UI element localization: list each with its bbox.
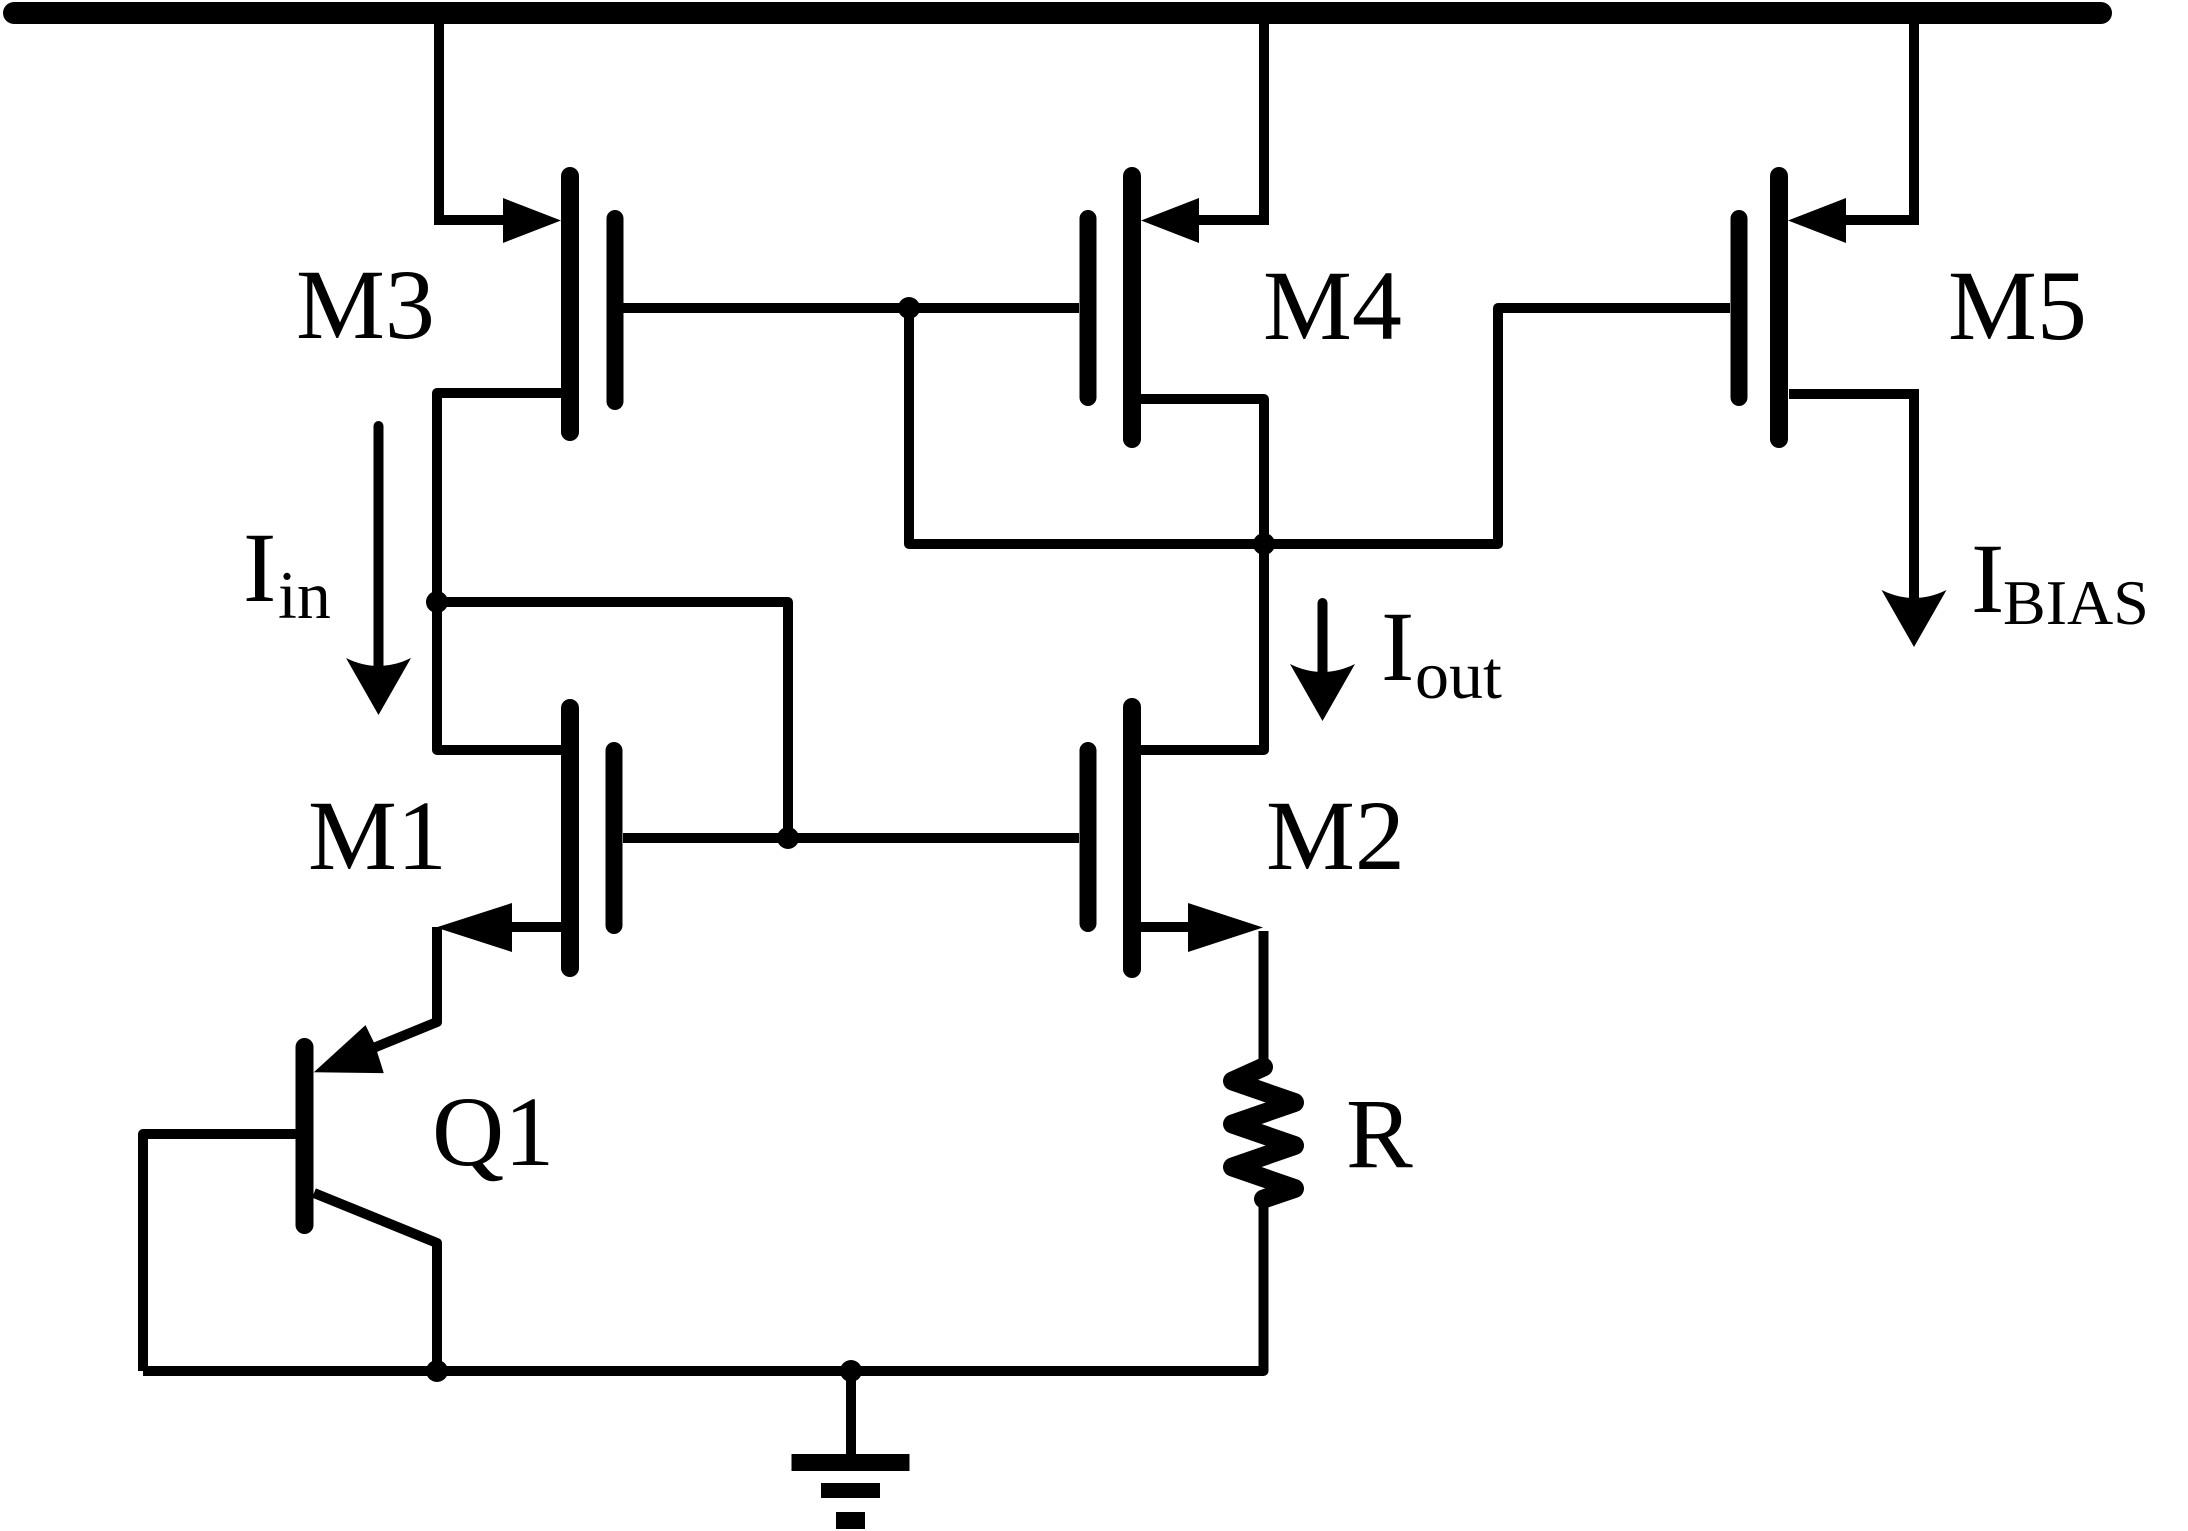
transistor M2 gate bar [1080, 751, 1097, 924]
node D dot on M1-M2 gate line [777, 827, 799, 849]
ground bar 2 [821, 1483, 880, 1498]
M1 source arrow [436, 903, 512, 952]
transistor Q1 base bar [296, 1047, 314, 1225]
wire M5 drain [1789, 394, 1914, 612]
Q1 emitter arrow [314, 1025, 384, 1073]
svg-text:I: I [243, 512, 276, 623]
svg-text:out: out [1415, 637, 1502, 713]
resistor R zigzag [1233, 1067, 1295, 1199]
transistor M3 gate bar [607, 219, 624, 402]
node A dot (Iin node) [426, 591, 448, 613]
M2 source arrow [1188, 903, 1263, 952]
svg-text:I: I [1381, 591, 1414, 702]
transistor M4 channel bar [1123, 176, 1141, 439]
wire M4 drain down to M2 drain [1141, 399, 1264, 750]
svg-text:M2: M2 [1266, 780, 1405, 891]
wire M3 gate to M4 gate [623, 303, 1079, 313]
node E dot (collector-ground wire) [426, 1360, 448, 1382]
wire node B down and over to M5 gate [909, 308, 1730, 544]
wire M1 gate to M2 gate [623, 833, 1079, 843]
wire Q1 base loop [143, 1134, 296, 1371]
VDD rail [14, 2, 2101, 24]
wire M2 source [1141, 922, 1195, 932]
M3 source arrow [503, 198, 561, 243]
node F dot (ground stem) [840, 1360, 862, 1382]
wire M5 source from rail [1846, 13, 1914, 220]
transistor M4 gate bar [1080, 219, 1097, 398]
wire resistor bottom to ground rail [143, 1199, 1264, 1371]
IBIAS arrowhead [1882, 590, 1947, 647]
M5 source arrow [1788, 198, 1846, 243]
ground stem [846, 1371, 856, 1455]
svg-text:M5: M5 [1948, 250, 2087, 361]
svg-text:M3: M3 [296, 249, 435, 360]
svg-text:R: R [1346, 1078, 1413, 1189]
node B dot on M3-M4 gate line [898, 297, 920, 319]
ground bar 3 [836, 1512, 865, 1529]
svg-text:in: in [278, 557, 331, 633]
svg-text:BIAS: BIAS [2003, 567, 2149, 638]
M4 source arrow [1141, 198, 1199, 243]
wire node A to M1/M2 gate line [437, 602, 788, 838]
node C dot (Iout node) [1253, 533, 1275, 555]
transistor M5 gate bar [1731, 219, 1748, 398]
wire M4 source from rail [1196, 13, 1264, 220]
wire M3 source from rail [439, 13, 505, 220]
svg-text:Q1: Q1 [432, 1076, 554, 1187]
ground bar 1 [792, 1454, 910, 1471]
Iin current arrow [374, 426, 384, 680]
transistor M5 channel bar [1770, 176, 1788, 439]
svg-text:M1: M1 [308, 780, 447, 891]
wire M2 source down to resistor [1259, 931, 1269, 1067]
transistor M1 channel bar [561, 708, 579, 968]
wire M1 source down to Q1 emitter [366, 927, 437, 1051]
svg-text:I: I [1971, 523, 2004, 634]
Iout current arrow [1318, 603, 1328, 686]
wire Q1 collector [314, 1193, 437, 1371]
wire M1 source [470, 922, 562, 932]
transistor M1 gate bar [606, 751, 623, 926]
transistor M3 channel bar [561, 176, 579, 432]
svg-text:M4: M4 [1263, 250, 1402, 361]
wire M3 drain down to M1 drain [437, 393, 562, 750]
transistor M2 channel bar [1123, 707, 1141, 969]
